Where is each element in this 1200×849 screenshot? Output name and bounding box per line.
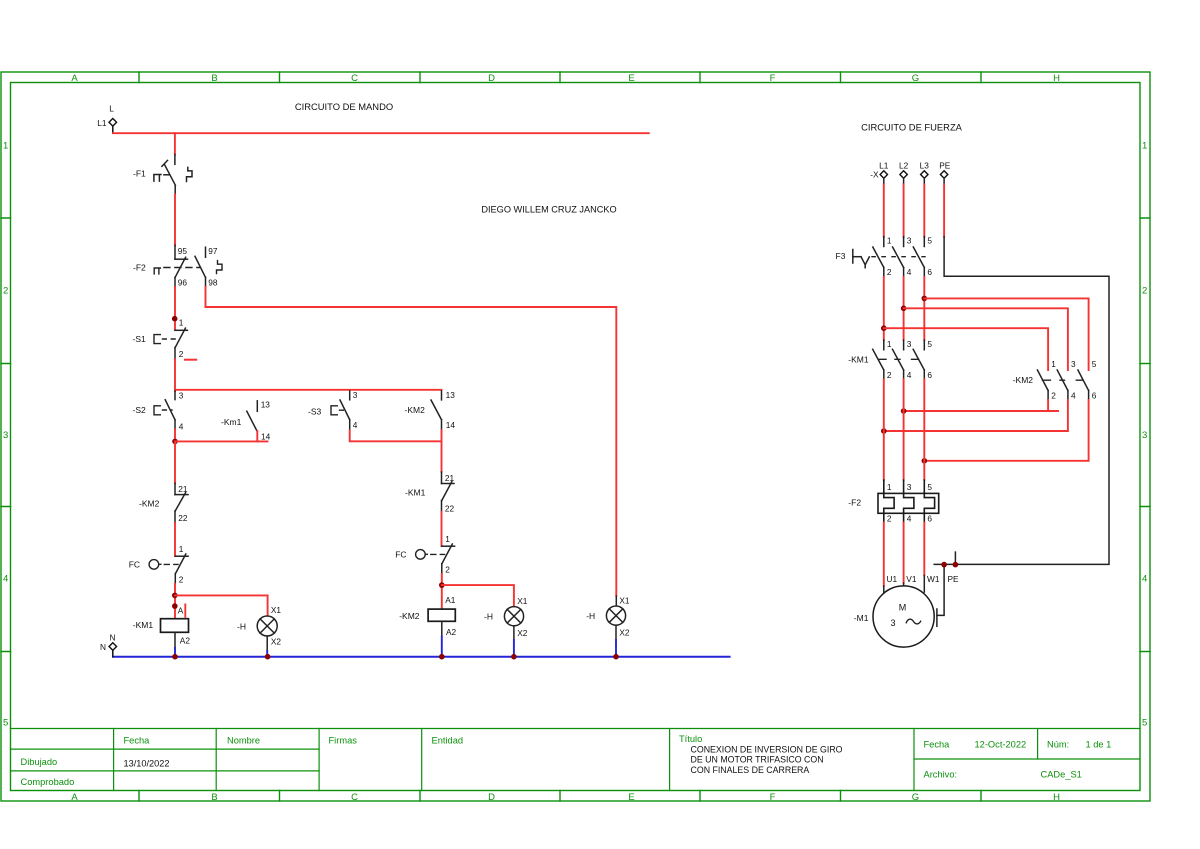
junction node L3 tap [922,296,928,302]
svg-text:4: 4 [907,267,912,277]
svg-text:W1: W1 [927,574,940,584]
svg-text:-H: -H [484,612,493,622]
svg-text:Fecha: Fecha [124,736,151,746]
svg-text:A1: A1 [445,595,456,605]
svg-text:98: 98 [208,277,218,287]
motor terminal labels [887,574,960,584]
svg-text:FC: FC [129,560,140,570]
svg-text:X1: X1 [271,605,282,615]
wires F2 to motor [884,523,925,587]
overload F2 actuator dashes and symbol [133,261,222,274]
svg-text:Título: Título [679,734,702,744]
pilot lamp H3 [586,596,630,640]
svg-text:2: 2 [887,513,892,523]
svg-text:CIRCUITO DE MANDO: CIRCUITO DE MANDO [295,101,393,112]
svg-text:2: 2 [1142,286,1147,297]
wire lamp H1 to neutral [266,651,268,657]
svg-text:21: 21 [178,484,188,494]
svg-text:Nombre: Nombre [227,736,260,746]
svg-text:3: 3 [907,236,912,246]
svg-text:2: 2 [3,286,8,297]
svg-text:A: A [178,605,184,615]
svg-text:14: 14 [446,420,456,430]
wire S1 to rung bus [174,359,176,391]
svg-text:1: 1 [887,339,892,349]
red state mark near S1 [185,359,196,361]
svg-text:C: C [351,792,358,803]
junction nodes on PE at motor [941,562,958,568]
svg-text:D: D [488,792,495,803]
svg-text:6: 6 [927,267,932,277]
wire L3 tap to KM2 pole5 [924,298,1088,370]
svg-text:4: 4 [1142,574,1147,585]
junction nodes on neutral bus [172,654,619,660]
frame column letters bottom [71,792,1060,803]
wire F1 to F2 [174,194,176,245]
wire KM1nc to FC2 [441,512,443,546]
svg-text:-H: -H [586,611,595,621]
junction node L1 tap [881,325,887,331]
pilot lamp H2 [484,596,528,640]
svg-text:3: 3 [890,618,895,628]
svg-text:-KM2: -KM2 [139,499,160,509]
auxiliary contact Km1 13-14 NO [221,400,271,442]
svg-text:-H: -H [237,622,246,632]
svg-text:1: 1 [179,544,184,554]
wire F2-96 down to S1 [174,287,176,330]
wires KM1 to F2 overload [884,379,925,480]
svg-text:CONEXION DE INVERSION DE GIRO: CONEXION DE INVERSION DE GIRO [691,744,843,754]
wire rung1 to Km1-14 [175,440,268,442]
svg-text:22: 22 [445,504,455,514]
svg-text:5: 5 [927,339,932,349]
svg-text:L1: L1 [879,160,889,170]
svg-text:3: 3 [907,482,912,492]
overload contact F2 95-96 NC [175,245,188,287]
svg-text:Firmas: Firmas [329,736,358,746]
svg-text:FC: FC [395,550,406,560]
disconnector F3 [836,236,933,278]
junction node KM2-6 join [922,458,928,464]
svg-text:U1: U1 [887,574,898,584]
svg-text:5: 5 [1092,359,1097,369]
start pushbutton S2 NO [133,391,184,432]
wire KM2 coil to neutral [441,636,443,656]
title block green labels [21,734,1112,787]
svg-text:1: 1 [887,236,892,246]
junction node L2 tap [901,306,907,312]
svg-text:96: 96 [178,277,188,287]
junction node rung1 lamp branch [172,593,178,599]
svg-text:F3: F3 [836,251,846,261]
svg-text:-S2: -S2 [133,405,147,415]
svg-text:X2: X2 [619,627,630,637]
svg-text:2: 2 [179,575,184,585]
wires F3 to KM1 [884,277,925,340]
title block black entries [124,759,170,769]
start pushbutton S3 NO [308,390,358,430]
svg-text:-KM1: -KM1 [133,620,154,630]
svg-text:A: A [71,73,78,84]
svg-text:DIEGO WILLEM CRUZ JANCKO: DIEGO WILLEM CRUZ JANCKO [481,205,616,215]
svg-text:-S1: -S1 [133,334,147,344]
svg-text:A2: A2 [446,627,457,637]
svg-text:12-Oct-2022: 12-Oct-2022 [975,740,1027,750]
svg-text:5: 5 [927,236,932,246]
terminal L1 [97,104,116,134]
frame row numbers left [3,141,8,729]
interlock contact KM2 21-22 NC [139,483,188,523]
svg-text:3: 3 [1071,359,1076,369]
wire rung bus node 3 [175,389,442,391]
junction node above S1 [172,316,178,322]
limit switch FC rung1 NC [129,544,188,585]
auxiliary contact KM2 13-14 NO [405,390,456,430]
wire KM1 coil to neutral bus [174,648,176,657]
svg-text:Comprobado: Comprobado [21,777,75,787]
svg-text:Núm:: Núm: [1047,740,1069,750]
wire top supply bus L1 [113,132,649,134]
wire KM2-2 to L2 column [904,400,1058,411]
svg-text:A: A [71,792,78,803]
svg-text:B: B [211,73,217,84]
svg-text:M: M [899,603,907,613]
svg-text:-KM2: -KM2 [399,611,420,621]
svg-text:F: F [770,73,776,84]
junction node rung2 lamp branch [439,582,445,588]
stop pushbutton S1 NC [133,318,188,359]
terminal stubs black [884,178,944,184]
contactor coil KM2 [399,609,456,637]
svg-text:-KM2: -KM2 [405,405,426,415]
svg-text:CON FINALES DE CARRERA: CON FINALES DE CARRERA [691,765,810,775]
svg-text:CADe_S1: CADe_S1 [1041,770,1082,780]
svg-text:H: H [1053,73,1060,84]
svg-text:21: 21 [445,473,455,483]
svg-text:6: 6 [927,513,932,523]
title block grid [11,729,1141,791]
wire rung1 to lamp H1 [175,595,268,616]
svg-text:L3: L3 [920,160,930,170]
overload contact F2 97-98 NO [195,246,218,287]
svg-text:6: 6 [1092,391,1097,401]
svg-text:95: 95 [178,246,188,256]
svg-text:H: H [1053,792,1060,803]
svg-text:1: 1 [445,534,450,544]
svg-text:1: 1 [179,318,184,328]
svg-text:4: 4 [3,574,8,585]
frame row numbers right [1142,141,1147,729]
svg-text:3: 3 [353,390,358,400]
svg-text:E: E [628,73,634,84]
svg-text:3: 3 [179,391,184,401]
heading CIRCUITO DE MANDO [295,101,393,112]
junction node KM2-2 join [901,408,907,414]
junction node above KM1 coil [172,603,178,609]
svg-text:4: 4 [907,370,912,380]
svg-text:4: 4 [907,513,912,523]
svg-text:5: 5 [927,482,932,492]
contactor KM1 main contacts [848,339,932,380]
heading CIRCUITO DE FUERZA [861,122,963,133]
svg-text:6: 6 [927,370,932,380]
svg-text:-KM2: -KM2 [1013,375,1034,385]
author name text [481,205,616,215]
svg-text:D: D [488,73,495,84]
junction node KM2-4 join [881,428,887,434]
svg-text:C: C [351,73,358,84]
svg-text:X1: X1 [517,596,528,606]
frame column letters top [71,73,1060,84]
svg-text:-M1: -M1 [854,613,869,623]
wire FC1 to coil node [174,584,176,619]
svg-text:X2: X2 [517,628,528,638]
svg-text:2: 2 [445,565,450,575]
svg-text:4: 4 [353,420,358,430]
wire PE run [934,237,1109,627]
svg-text:5: 5 [3,718,8,729]
motor M1 [854,586,934,647]
breaker F1 [133,155,192,195]
svg-text:14: 14 [261,432,271,442]
svg-text:-Km1: -Km1 [221,417,242,427]
svg-text:-F2: -F2 [848,498,861,508]
svg-text:-KM1: -KM1 [848,354,869,364]
svg-text:PE: PE [948,574,960,584]
svg-text:13: 13 [261,400,271,410]
svg-text:4: 4 [1071,391,1076,401]
svg-text:E: E [628,792,634,803]
svg-text:PE: PE [939,160,951,170]
svg-text:CIRCUITO DE FUERZA: CIRCUITO DE FUERZA [861,122,963,133]
svg-text:B: B [211,792,217,803]
wire rung2 to lamp H2 [442,585,514,607]
wires terminals to F3 [884,185,944,238]
svg-text:-F1: -F1 [133,168,146,178]
svg-text:N: N [100,642,106,652]
svg-text:L2: L2 [899,160,909,170]
svg-text:97: 97 [208,246,218,256]
terminal N [100,633,117,657]
wire drop to F1 [174,133,176,154]
svg-text:4: 4 [179,421,184,431]
svg-text:Fecha: Fecha [924,740,951,750]
svg-text:-KM1: -KM1 [405,488,426,498]
svg-text:L1: L1 [97,118,107,128]
svg-text:2: 2 [1051,391,1056,401]
svg-text:-S3: -S3 [308,406,322,416]
wire KM2nc to FC1 [174,523,176,556]
svg-text:13: 13 [446,390,456,400]
svg-text:3: 3 [907,339,912,349]
svg-text:Entidad: Entidad [432,736,464,746]
svg-text:V1: V1 [906,574,917,584]
svg-text:3: 3 [1142,430,1147,441]
svg-text:1: 1 [887,482,892,492]
motor lead ticks [884,575,925,593]
contactor KM2 main contacts [1013,359,1097,401]
wire KM2-14 down rung2 [441,430,443,472]
junction node rung1 seal-in [172,439,178,445]
wire S2 to junction [174,429,176,441]
svg-text:X2: X2 [271,637,282,647]
svg-text:2: 2 [887,267,892,277]
svg-text:X1: X1 [619,596,630,606]
pin label A1 rung2 [445,595,456,605]
interlock contact KM1 21-22 NC [405,472,455,514]
svg-text:1: 1 [3,141,8,152]
wire KM2-6 to L3 column [924,400,1088,461]
svg-text:2: 2 [887,370,892,380]
svg-text:DE UN MOTOR TRIFASICO CON: DE UN MOTOR TRIFASICO CON [691,755,824,765]
neutral bus N [113,656,730,658]
svg-text:22: 22 [178,513,188,523]
svg-text:3: 3 [3,430,8,441]
wire FC2 to KM2 coil [441,574,443,609]
limit switch FC rung2 NC [395,534,454,575]
wire rung1 down to KM2 NC [174,441,176,483]
svg-text:-X: -X [870,170,879,180]
svg-text:N: N [110,633,116,643]
wire F2-98 to pilot lamp H3 column [206,287,617,596]
pin label A1 with red cursor [178,604,186,616]
svg-text:A2: A2 [180,636,191,646]
svg-text:2: 2 [179,349,184,359]
svg-text:Archivo:: Archivo: [924,770,958,780]
pilot lamp H1 [237,605,281,651]
title text CONEXION DE INVERSION [691,744,843,775]
svg-text:G: G [912,73,919,84]
svg-text:-F2: -F2 [133,262,146,272]
terminal strip -X L1 L2 L3 PE [870,160,951,179]
svg-text:F: F [770,792,776,803]
wire lamp H3 to neutral [615,640,617,657]
svg-text:1 de 1: 1 de 1 [1086,740,1112,750]
svg-text:5: 5 [1142,718,1147,729]
svg-text:1: 1 [1142,141,1147,152]
svg-text:1: 1 [1051,359,1056,369]
svg-text:13/10/2022: 13/10/2022 [124,759,170,769]
contactor coil KM1 [133,619,191,648]
thermal overload F2 power element [848,480,938,523]
wire L2 tap to KM2 pole3 [904,308,1068,370]
wire KM2-4 to L1 column [884,400,1068,431]
svg-text:Dibujado: Dibujado [21,757,58,767]
wire L1 tap to KM2 pole1 [884,328,1048,370]
wire S3 to rung2 [350,430,442,441]
svg-text:G: G [912,792,919,803]
svg-text:L: L [109,104,114,114]
wire lamp H2 to neutral [513,640,515,657]
